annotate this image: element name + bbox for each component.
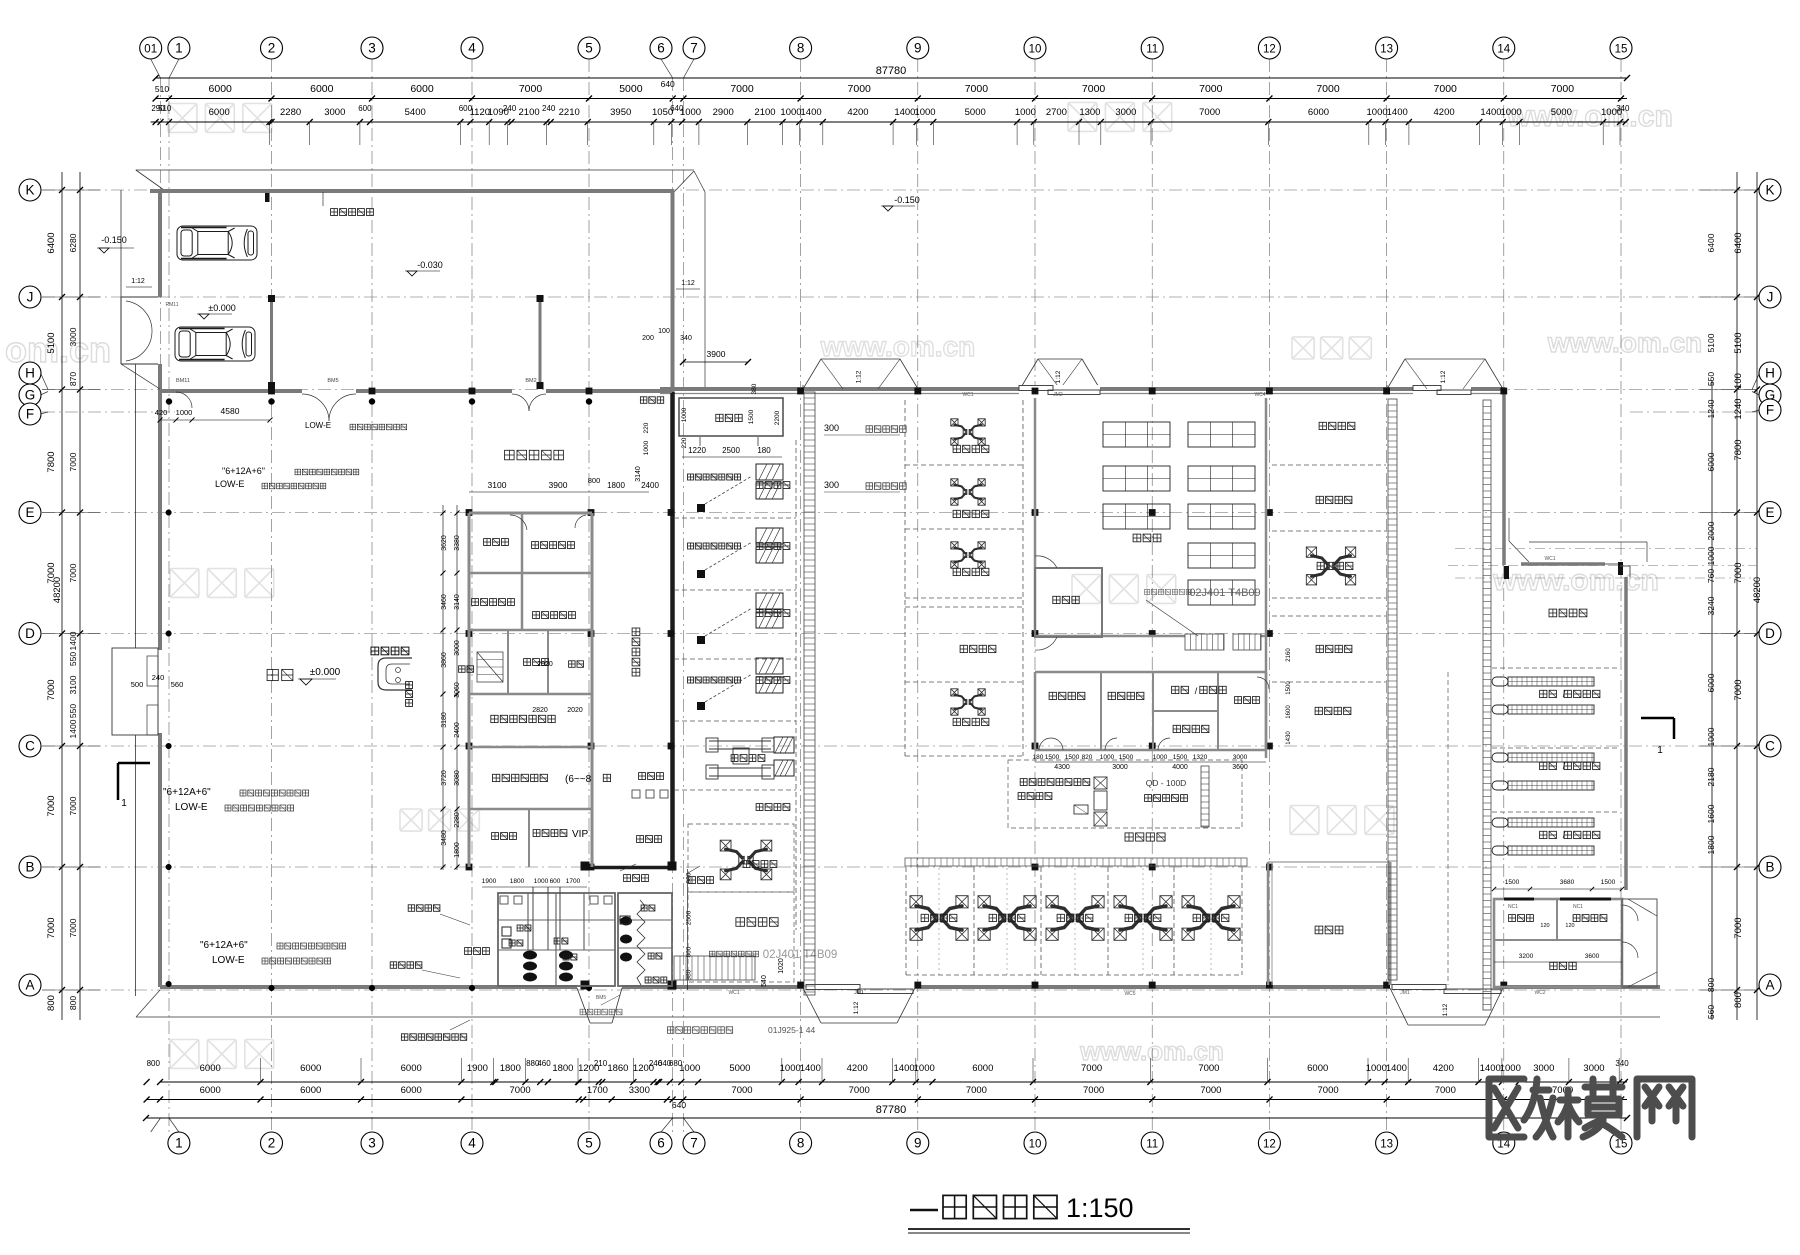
svg-text:6000: 6000 xyxy=(1307,1063,1328,1074)
svg-text:D: D xyxy=(1765,626,1775,641)
label guding fanghuochuang 1 xyxy=(688,474,694,480)
dashed box strip lift bay xyxy=(688,824,794,892)
svg-text:www.om.cn: www.om.cn xyxy=(1547,327,1703,358)
south JM1 door panels xyxy=(806,985,860,990)
polish benches xyxy=(1492,677,1508,686)
svg-text:1500: 1500 xyxy=(748,409,755,424)
svg-text:180: 180 xyxy=(757,446,771,455)
showroom east wall xyxy=(671,191,675,392)
svg-text:6000: 6000 xyxy=(401,1085,422,1096)
control room walls xyxy=(507,630,509,694)
office partition y630 xyxy=(469,629,592,632)
svg-text:120: 120 xyxy=(1540,923,1549,929)
svg-text:1000: 1000 xyxy=(1015,107,1036,118)
svg-text:1220: 1220 xyxy=(688,446,706,455)
bottom dimension chain xyxy=(160,1081,1627,1083)
label xingxiangqiang vertical xyxy=(406,682,413,689)
svg-text:2180: 2180 xyxy=(1706,767,1716,786)
svg-text:980: 980 xyxy=(686,969,693,980)
mullion cap axis2 top wall xyxy=(265,190,270,202)
office partition y573 xyxy=(469,572,592,575)
svg-text:2: 2 xyxy=(268,41,276,56)
room label louti xyxy=(459,666,466,673)
svg-text:1700: 1700 xyxy=(566,878,581,885)
south vestibule JM1 east xyxy=(1390,988,1408,1025)
showroom top wall xyxy=(150,189,674,193)
canopy ramp edge xyxy=(704,192,706,389)
svg-text:3: 3 xyxy=(368,1136,376,1151)
title yiceng pingmiantu xyxy=(910,1209,938,1212)
toilet stall walls west xyxy=(532,887,534,950)
svg-text:1000: 1000 xyxy=(914,1063,935,1074)
svg-text:6280: 6280 xyxy=(68,233,78,252)
svg-text:3140: 3140 xyxy=(635,466,642,482)
svg-text:4580: 4580 xyxy=(221,406,240,416)
room label xiaoshoujingli bangongshi xyxy=(491,715,498,722)
svg-text:JM2: JM2 xyxy=(1053,392,1063,398)
svg-text:2020: 2020 xyxy=(567,707,583,714)
svg-text:340: 340 xyxy=(680,335,692,342)
svg-text:7000: 7000 xyxy=(731,1085,752,1096)
label kaoqifang xyxy=(1315,926,1323,934)
svg-text:6: 6 xyxy=(657,41,665,56)
yuliu label right xyxy=(1316,645,1323,652)
svg-text:J: J xyxy=(1767,290,1774,305)
svg-text:1000: 1000 xyxy=(679,1063,700,1074)
svg-text:7800: 7800 xyxy=(1733,439,1744,460)
svg-text:1000: 1000 xyxy=(780,1063,801,1074)
svg-text:800: 800 xyxy=(147,1059,161,1068)
left dimension columns xyxy=(61,172,63,1020)
svg-text:1000: 1000 xyxy=(680,107,701,118)
SE top wall windows xyxy=(1504,898,1534,901)
svg-text:3140: 3140 xyxy=(454,594,461,610)
svg-text:1300: 1300 xyxy=(1079,107,1100,118)
label suopeijianshi xyxy=(1173,725,1180,732)
svg-text:10: 10 xyxy=(1029,1139,1042,1151)
svg-text:300: 300 xyxy=(824,423,839,433)
label boli geduan xyxy=(408,905,415,912)
label dadeng jianceyi xyxy=(1145,795,1152,802)
svg-text:6000: 6000 xyxy=(200,1085,221,1096)
svg-text:1000: 1000 xyxy=(914,107,935,118)
svg-text:1:12: 1:12 xyxy=(131,278,145,285)
big gray watermark OMW xyxy=(1489,1079,1692,1137)
lifts and labels axis8-9 xyxy=(954,425,981,439)
svg-text:3680: 3680 xyxy=(1560,879,1575,886)
svg-text:-0.150: -0.150 xyxy=(101,235,127,245)
svg-text:K: K xyxy=(1765,183,1774,198)
maintain pads 1 xyxy=(756,464,783,480)
svg-text:1240: 1240 xyxy=(1733,398,1744,419)
svg-text:3600: 3600 xyxy=(1585,953,1600,960)
label zongchengweixiu xyxy=(1049,692,1056,699)
svg-text:D: D xyxy=(25,626,35,641)
svg-text:7000: 7000 xyxy=(730,83,754,95)
svg-text:7000: 7000 xyxy=(965,83,989,95)
svg-text:E: E xyxy=(25,505,34,520)
svg-text:G: G xyxy=(25,388,36,403)
right dimension columns xyxy=(1711,380,1713,1020)
svg-text:48200: 48200 xyxy=(52,577,63,603)
svg-text:1800: 1800 xyxy=(1706,835,1716,854)
svg-text:5100: 5100 xyxy=(46,332,57,353)
svg-text:3080: 3080 xyxy=(454,770,461,786)
parts warehouse walls xyxy=(1034,398,1037,632)
svg-text:2100: 2100 xyxy=(754,107,775,118)
svg-text:NC1: NC1 xyxy=(1508,904,1518,910)
svg-text:BM2: BM2 xyxy=(525,378,536,384)
office block outer walls xyxy=(469,512,592,515)
svg-text:550: 550 xyxy=(1706,372,1716,386)
svg-text:1800: 1800 xyxy=(454,842,461,858)
svg-text:BM11: BM11 xyxy=(176,378,190,384)
svg-text:7000: 7000 xyxy=(1200,1085,1221,1096)
svg-text:7: 7 xyxy=(690,1136,698,1151)
label baoyang gongwei 1 xyxy=(756,482,763,489)
banjin label 1 xyxy=(1319,422,1326,429)
south apron line xyxy=(136,1016,1660,1018)
svg-text:2400: 2400 xyxy=(454,722,461,738)
svg-text:1000: 1000 xyxy=(1367,107,1388,118)
bottom south curtain wall xyxy=(160,985,577,989)
svg-text:7000: 7000 xyxy=(1551,83,1575,95)
JM2 sliding door opening xyxy=(1019,385,1100,395)
svg-text:9: 9 xyxy=(914,1136,922,1151)
bays lifts and labels xyxy=(938,868,940,975)
car 1 xyxy=(177,226,257,260)
svg-text:3620: 3620 xyxy=(441,535,448,551)
label fanghuoqiang 1 xyxy=(624,875,631,882)
svg-text:NC1: NC1 xyxy=(1573,904,1583,910)
svg-text:2820: 2820 xyxy=(532,707,548,714)
wall end caps xyxy=(1504,566,1509,579)
label zhanting xyxy=(267,669,278,680)
label weixiujiedaiqu xyxy=(505,450,514,460)
svg-text:1400: 1400 xyxy=(800,1063,821,1074)
svg-text:3300: 3300 xyxy=(629,1085,650,1096)
svg-text:560: 560 xyxy=(1706,1005,1716,1019)
svg-text:7000: 7000 xyxy=(46,917,57,938)
label dianshiqu xyxy=(637,836,644,843)
toilet fixtures west xyxy=(523,951,537,960)
room label batai xyxy=(569,661,576,668)
label guding fanghuochuang 2 xyxy=(688,543,694,549)
label yuliu gongwei right xyxy=(736,918,745,927)
svg-text:2700: 2700 xyxy=(1046,107,1067,118)
B-row fire wall xyxy=(585,866,676,870)
svg-text:420: 420 xyxy=(155,408,168,417)
room label kehuxiuxi VIP xyxy=(533,830,540,837)
svg-text:1400: 1400 xyxy=(68,719,78,738)
svg-text:1000: 1000 xyxy=(1366,1063,1387,1074)
parts shelves xyxy=(1103,422,1170,447)
svg-text:1400: 1400 xyxy=(801,107,822,118)
svg-text:4300: 4300 xyxy=(1054,764,1070,771)
axis bubbles bottom xyxy=(168,1132,190,1154)
label baoyang gongwei 3 xyxy=(756,610,763,617)
svg-text:870: 870 xyxy=(68,372,78,386)
axis bubble leader lines xyxy=(151,59,161,78)
svg-text:3: 3 xyxy=(368,41,376,56)
svg-text:"6+12A+6": "6+12A+6" xyxy=(163,787,211,798)
svg-text:340: 340 xyxy=(1615,1059,1629,1068)
label jingpinqu xyxy=(640,397,647,404)
svg-text:3720: 3720 xyxy=(441,770,448,786)
svg-text:7000: 7000 xyxy=(68,563,78,582)
urinal squares xyxy=(502,927,511,936)
svg-text:5: 5 xyxy=(585,1136,593,1151)
svg-text:7000: 7000 xyxy=(1435,1085,1456,1096)
label tiaoqifang xyxy=(1509,915,1516,922)
label silunDingwei xyxy=(731,755,738,762)
svg-text:7000: 7000 xyxy=(849,1085,870,1096)
svg-text:7000: 7000 xyxy=(46,795,57,816)
north workshop wall G row xyxy=(660,387,1505,391)
svg-text:380: 380 xyxy=(751,383,758,394)
partition below J at x540 xyxy=(539,297,542,389)
svg-text:JM1: JM1 xyxy=(1400,990,1410,996)
north vestibule 3 xyxy=(1387,359,1405,389)
svg-text:7000: 7000 xyxy=(68,452,78,471)
svg-text:460: 460 xyxy=(537,1059,551,1068)
lingliaojian room xyxy=(1035,568,1102,637)
svg-text:100: 100 xyxy=(658,328,670,335)
east step outline at E row xyxy=(1508,518,1510,541)
svg-text:14: 14 xyxy=(1497,44,1510,56)
svg-text:3000: 3000 xyxy=(1115,107,1136,118)
svg-text:1400: 1400 xyxy=(894,1063,915,1074)
svg-text:48200: 48200 xyxy=(1752,577,1763,603)
svg-text:1400: 1400 xyxy=(1480,107,1501,118)
banjin big lift xyxy=(1312,556,1351,577)
svg-text:1000: 1000 xyxy=(1706,546,1716,565)
office partition y694 xyxy=(469,693,592,696)
svg-text:2000: 2000 xyxy=(1706,521,1716,540)
svg-text:1860: 1860 xyxy=(607,1063,628,1074)
svg-text:7000: 7000 xyxy=(1733,679,1744,700)
corridor corner squares xyxy=(581,862,590,871)
svg-text:"6+12A+6": "6+12A+6" xyxy=(200,940,248,951)
svg-text:1:12: 1:12 xyxy=(1055,370,1062,383)
svg-text:6000: 6000 xyxy=(300,1085,321,1096)
svg-text:1: 1 xyxy=(175,41,183,56)
G row anchor dots xyxy=(166,399,172,405)
svg-text:6000: 6000 xyxy=(410,83,434,95)
svg-text:600: 600 xyxy=(358,104,372,113)
svg-text:±0.000: ±0.000 xyxy=(310,667,341,678)
svg-text:LOW-E: LOW-E xyxy=(305,421,331,430)
svg-text:2400: 2400 xyxy=(641,481,659,490)
banjin label 2 xyxy=(1316,496,1323,503)
svg-text:5100: 5100 xyxy=(1733,332,1744,353)
steel stair note 02J401 xyxy=(709,951,715,957)
svg-text:1400: 1400 xyxy=(1480,1063,1501,1074)
svg-text:5: 5 xyxy=(585,41,593,56)
label baoyang gongwei 4 xyxy=(756,677,763,684)
corridor label kehuxiuxiqu vertical xyxy=(632,628,640,636)
svg-text:3000: 3000 xyxy=(1533,1063,1554,1074)
svg-text:1: 1 xyxy=(121,798,127,809)
svg-text:6400: 6400 xyxy=(1706,233,1716,252)
svg-text:100: 100 xyxy=(1733,373,1744,389)
svg-text:15: 15 xyxy=(1615,44,1628,56)
svg-text:1:150: 1:150 xyxy=(1066,1193,1134,1223)
svg-text:6000: 6000 xyxy=(1706,673,1716,692)
room label xiaoshouyewu bangongshi 6-8 xyxy=(493,774,500,781)
room label qiatanshi xyxy=(492,833,499,840)
svg-text:JM1: JM1 xyxy=(854,990,864,996)
G wall showroom doors xyxy=(176,392,192,408)
svg-text:VIP: VIP xyxy=(572,829,588,840)
svg-text:5000: 5000 xyxy=(965,107,986,118)
dashed bays axis8-9 xyxy=(904,400,906,756)
svg-text:1000: 1000 xyxy=(1501,107,1522,118)
svg-text:6000: 6000 xyxy=(972,1063,993,1074)
glass canopy note below toilets xyxy=(580,1009,586,1015)
diaodushi room xyxy=(679,398,783,436)
ladder in detection xyxy=(1201,766,1209,827)
svg-text:1800: 1800 xyxy=(552,1063,573,1074)
svg-text:560: 560 xyxy=(171,680,184,689)
office dims top xyxy=(469,491,649,493)
svg-text:7000: 7000 xyxy=(1318,1085,1339,1096)
JM1 sliding door opening north xyxy=(1413,385,1471,395)
svg-text:1800: 1800 xyxy=(607,481,625,490)
label qingzhigeqiang xyxy=(390,962,397,969)
label qiatanqu xyxy=(465,948,472,955)
svg-text:540: 540 xyxy=(761,975,768,987)
svg-text:1500: 1500 xyxy=(1286,681,1292,695)
label sihiyi guntong jiancexian xyxy=(1020,779,1027,786)
room label fuwujinglishi xyxy=(532,542,539,549)
svg-text:1:12: 1:12 xyxy=(853,1001,860,1014)
svg-text:210: 210 xyxy=(594,1059,608,1068)
svg-text:1900: 1900 xyxy=(467,1063,488,1074)
svg-text:600: 600 xyxy=(550,878,561,885)
svg-text:3950: 3950 xyxy=(610,107,631,118)
svg-text:3000: 3000 xyxy=(454,640,461,656)
east notch corner xyxy=(1620,565,1630,567)
svg-text:6400: 6400 xyxy=(1733,232,1744,253)
svg-text:LOW-E: LOW-E xyxy=(175,802,208,813)
svg-text:200: 200 xyxy=(642,335,654,342)
svg-text:7000: 7000 xyxy=(1081,1063,1102,1074)
label weixiu chejian xyxy=(1125,833,1133,841)
svg-text:4200: 4200 xyxy=(1433,1063,1454,1074)
structural column squares xyxy=(268,388,275,395)
section mark left xyxy=(118,762,150,765)
svg-text:6000: 6000 xyxy=(401,1063,422,1074)
lower east wall xyxy=(1624,577,1628,890)
office west dim chain xyxy=(442,505,444,870)
leader squares and dashes xyxy=(697,504,705,512)
strip bay dashed dividers xyxy=(674,517,796,519)
svg-text:7000: 7000 xyxy=(510,1085,531,1096)
label xinjianshi xyxy=(1235,697,1242,704)
svg-text:240: 240 xyxy=(152,673,165,682)
svg-text:6400: 6400 xyxy=(46,232,57,253)
maintain pads 4 xyxy=(756,658,783,674)
svg-text:1900: 1900 xyxy=(482,878,497,885)
four wheel pads xyxy=(774,737,794,753)
room label xiaoshouchuzhangshi xyxy=(472,599,479,606)
south toilet canopy xyxy=(577,988,590,1023)
svg-text:3060: 3060 xyxy=(454,682,461,698)
svg-text:BM5: BM5 xyxy=(596,995,607,1001)
svg-text:B: B xyxy=(1765,860,1774,875)
label luntai gongwei xyxy=(756,804,763,811)
svg-text:640: 640 xyxy=(672,1100,686,1110)
svg-text:K: K xyxy=(25,183,34,198)
svg-text:7000: 7000 xyxy=(46,679,57,700)
svg-text:1430: 1430 xyxy=(1286,731,1292,745)
svg-text:1600: 1600 xyxy=(1286,705,1292,719)
toilet labels west xyxy=(509,940,515,946)
main west entrance vestibule xyxy=(112,648,158,735)
office stair xyxy=(477,652,503,682)
paint booth walls xyxy=(1267,862,1270,985)
svg-text:8: 8 xyxy=(797,41,805,56)
bay dashed dividers xyxy=(905,867,907,975)
svg-text:550: 550 xyxy=(68,704,78,718)
svg-text:01J925-1 44: 01J925-1 44 xyxy=(768,1025,816,1035)
svg-text:2500: 2500 xyxy=(686,910,693,925)
svg-text:J: J xyxy=(27,290,34,305)
reception desk xyxy=(378,658,412,690)
svg-text:6000: 6000 xyxy=(300,1063,321,1074)
svg-text:WC1: WC1 xyxy=(962,392,973,398)
svg-text:1:12: 1:12 xyxy=(1440,370,1447,383)
svg-text:www.om.cn: www.om.cn xyxy=(1492,564,1659,597)
svg-text:1: 1 xyxy=(1657,745,1663,756)
polish labels xyxy=(1540,690,1547,697)
svg-text:02J401 T4B09: 02J401 T4B09 xyxy=(763,949,838,961)
svg-text:www.om.cn: www.om.cn xyxy=(1506,100,1673,133)
svg-text:"6+12A+6": "6+12A+6" xyxy=(222,466,265,476)
label dianqiweixiu xyxy=(1108,692,1115,699)
svg-text:6000: 6000 xyxy=(1308,107,1329,118)
label baoyang gongwei 2 xyxy=(756,543,763,550)
svg-text:550: 550 xyxy=(68,652,78,666)
svg-text:1400: 1400 xyxy=(68,631,78,650)
aux axis rows at east notch xyxy=(1455,548,1757,550)
svg-text:7000: 7000 xyxy=(1199,83,1223,95)
svg-text:7000: 7000 xyxy=(1083,1085,1104,1096)
svg-text:6000: 6000 xyxy=(209,107,230,118)
svg-text:7000: 7000 xyxy=(1316,83,1340,95)
SE east door strip xyxy=(1622,899,1657,987)
svg-text:3860: 3860 xyxy=(441,652,448,668)
svg-text:3380: 3380 xyxy=(454,535,461,551)
showroom south wall G row xyxy=(160,389,302,393)
dashed lines east zone xyxy=(1447,672,1449,985)
svg-text:6000: 6000 xyxy=(200,1063,221,1074)
north vestibule 1 xyxy=(803,359,821,389)
svg-text:4200: 4200 xyxy=(1434,107,1455,118)
north vestibule 2 xyxy=(1020,359,1038,389)
label shangwangqu xyxy=(639,773,646,780)
svg-text:1: 1 xyxy=(175,1136,183,1151)
svg-text:800: 800 xyxy=(1706,978,1716,992)
svg-text:5000: 5000 xyxy=(1551,107,1572,118)
svg-text:1240: 1240 xyxy=(1706,399,1716,418)
svg-text:510: 510 xyxy=(155,84,169,94)
svg-text:800: 800 xyxy=(588,476,601,485)
steel stairs D row xyxy=(1185,634,1224,650)
label kongyajifang xyxy=(1573,915,1580,922)
svg-text:2210: 2210 xyxy=(559,107,580,118)
